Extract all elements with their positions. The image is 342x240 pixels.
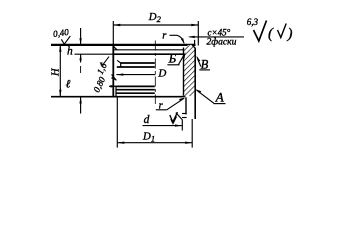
- lower r leader shelf: [156, 109, 167, 111]
- thread line y=89.7: [116, 89, 155, 91]
- thread left wall connector: [115, 86, 117, 96]
- general roughness tick 6,3: [254, 21, 267, 42]
- lower r leader: [167, 98, 184, 110]
- h upper arrow: [79, 38, 81, 45]
- roughness 1,6 tick: [100, 57, 109, 66]
- svg-text:А: А: [215, 90, 224, 105]
- upper r leader: [170, 35, 184, 43]
- svg-text:2фаски: 2фаски: [207, 37, 237, 48]
- roughness 0,40 tick: [61, 36, 70, 44]
- part left edge: [112, 45, 114, 97]
- svg-text:h: h: [67, 46, 73, 58]
- D1 right arrow: [185, 142, 192, 144]
- svg-text:0,80: 0,80: [91, 75, 107, 94]
- groove left wall connector: [120, 63, 122, 67]
- V(cyr В) label leader: [199, 69, 210, 71]
- svg-text:D2: D2: [148, 11, 162, 24]
- H top arrow: [59, 45, 61, 52]
- inner step line y=54: [75, 53, 114, 55]
- svg-text:0,40: 0,40: [52, 27, 69, 39]
- D1 right extension line: [191, 119, 193, 148]
- roughness 0,80 arrow: [109, 85, 117, 87]
- groove chamfer lead: [117, 60, 121, 63]
- top face outline: [51, 44, 196, 46]
- d extension line: [181, 120, 183, 131]
- roughness 1,6 arrow: [112, 75, 117, 81]
- D2 left extension line: [112, 21, 114, 45]
- svg-text:r: r: [162, 31, 167, 42]
- wall bottom stub y=113.5: [182, 113, 187, 115]
- wall bottom stub y=117.5: [182, 117, 187, 119]
- roughness tick in parens: [278, 24, 287, 38]
- h lower arrow: [79, 54, 81, 60]
- svg-text:d: d: [144, 114, 150, 126]
- D dimension line: [116, 74, 155, 76]
- D1 left arrow: [117, 142, 124, 144]
- wall top chamfer: [192, 45, 196, 49]
- hatched wall section: [184, 45, 196, 96]
- A label leader: [214, 103, 226, 105]
- wall inner edge: [183, 48, 185, 96]
- svg-text:Б: Б: [168, 51, 177, 66]
- D2 right arrow: [191, 24, 198, 26]
- chamfer corner stub: [194, 40, 196, 45]
- thread line y=86.4: [116, 85, 155, 87]
- l lower arrow line: [80, 97, 82, 114]
- h upper dimension arrow line: [80, 28, 82, 45]
- svg-text:В: В: [201, 58, 209, 72]
- svg-text:ℓ: ℓ: [66, 78, 71, 90]
- D2 dimension line: [113, 24, 198, 26]
- axis centerline: [154, 41, 156, 105]
- H bottom arrow: [59, 90, 61, 97]
- svg-text:6,3: 6,3: [247, 17, 259, 27]
- D arrow: [116, 73, 123, 75]
- D2 right extension line: [197, 21, 199, 46]
- D2 left arrow: [113, 24, 120, 26]
- inner step line y=49.8: [114, 49, 184, 51]
- svg-text:D1: D1: [142, 131, 155, 144]
- c x 45 leader shelf: [190, 36, 245, 38]
- groove line y=63: [121, 62, 155, 64]
- svg-text:): ): [287, 26, 293, 42]
- svg-text:1,6: 1,6: [95, 61, 109, 76]
- l dimension line dashes: [80, 66, 82, 73]
- groove line y=67: [117, 66, 155, 68]
- svg-text:D: D: [157, 68, 166, 80]
- c x 45 leader arrow: [188, 36, 195, 38]
- wall outer edge: [194, 48, 196, 119]
- svg-text:(: (: [268, 26, 274, 42]
- bottom inner face line y=96.7: [51, 93, 187, 97]
- B(cyr Б) label leader: [167, 64, 179, 66]
- h lower arrow line: [80, 54, 82, 62]
- svg-text:H: H: [50, 67, 61, 77]
- H dimension line: [59, 45, 61, 97]
- inner step chamfer lead: [113, 46, 117, 50]
- d dimension line: [143, 125, 182, 127]
- l lower arrow: [79, 97, 81, 104]
- roughness tick on d: [170, 112, 178, 122]
- D1 left extension line: [116, 97, 118, 148]
- wall lower inner line: [185, 97, 187, 114]
- d arrow: [175, 124, 182, 126]
- D1 dimension line: [117, 142, 192, 144]
- thread line y=93.2: [116, 92, 155, 94]
